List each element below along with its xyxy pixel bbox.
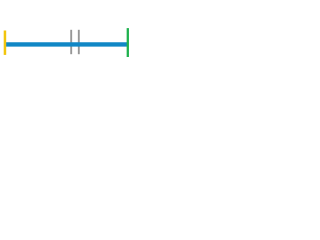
capacitor C1 — [71, 30, 79, 54]
terminal 1 — [4, 31, 7, 55]
wire — [5, 42, 128, 46]
terminal 2 — [127, 28, 129, 57]
